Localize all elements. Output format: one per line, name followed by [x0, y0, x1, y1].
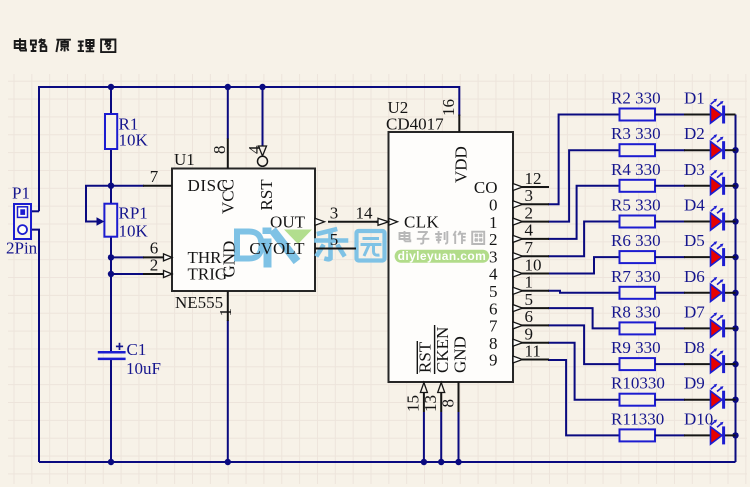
svg-text:15: 15: [404, 395, 423, 412]
resistor R1 10K: [105, 114, 149, 150]
watermark diyleyuan.com pill: [395, 249, 490, 263]
wire OUT to CLK net: [328, 221, 378, 223]
svg-text:10K: 10K: [119, 131, 149, 150]
U2 output 5 pin 1: [489, 273, 549, 301]
svg-text:5: 5: [525, 290, 534, 309]
junction cathode rail D9: [732, 397, 738, 403]
wire Q9 to R11: [548, 360, 620, 435]
junction cathode rail D8: [732, 361, 738, 367]
svg-text:R9 330: R9 330: [611, 338, 661, 357]
resistor R11 330: [611, 409, 664, 441]
U2 pin 15 RST input: [404, 383, 428, 413]
U1 pin 7 DISC: [143, 167, 172, 186]
svg-text:9: 9: [489, 351, 498, 370]
svg-text:R6 330: R6 330: [611, 231, 661, 250]
svg-text:7: 7: [525, 238, 534, 257]
resistor R3 330: [611, 124, 661, 156]
wire R2 to D1: [655, 114, 685, 116]
U2 pin 14 CLK input: [356, 203, 398, 225]
svg-text:CVOLT: CVOLT: [249, 239, 305, 258]
svg-text:diyleyuan.com: diyleyuan.com: [398, 249, 487, 263]
svg-text:D5: D5: [684, 231, 705, 250]
U1 pin 5 CVOLT: [315, 230, 338, 249]
wire top rail to R1: [110, 87, 112, 114]
LED D9: [684, 374, 736, 409]
wire Q3 to R5: [548, 222, 620, 257]
svg-text:6: 6: [489, 299, 498, 318]
LED D2: [684, 124, 736, 159]
wire R5 to D4: [655, 221, 685, 223]
U1 pin name labels: [174, 150, 306, 312]
wire RP1 wiper loop: [86, 186, 111, 222]
LED D4: [684, 196, 736, 231]
watermark 电子制作网 (hand-drawn gray glyphs): [400, 231, 485, 244]
U2 output CO pin 12: [474, 169, 549, 197]
svg-text:R7 330: R7 330: [611, 267, 661, 286]
svg-text:D7: D7: [684, 302, 705, 321]
wire Q4 to R6: [548, 257, 620, 273]
svg-text:D4: D4: [684, 196, 705, 215]
resistor R9 330: [611, 338, 661, 370]
svg-text:R5 330: R5 330: [611, 196, 661, 215]
svg-text:11: 11: [525, 341, 541, 360]
U2 pin 16 VDD: [439, 99, 460, 132]
wire R7 to D6: [655, 292, 685, 294]
svg-text:D8: D8: [684, 338, 705, 357]
U1 pin 4 RST active-low: [245, 145, 268, 166]
capacitor C1 10uF: [98, 340, 161, 378]
junction cathode rail D6: [732, 290, 738, 296]
junction cathode rail D5: [732, 254, 738, 260]
U2 output 1 pin 2: [489, 203, 549, 231]
svg-text:8: 8: [210, 146, 229, 155]
svg-text:10: 10: [525, 255, 542, 274]
svg-text:D3: D3: [684, 160, 705, 179]
junction cathode rail D7: [732, 325, 738, 331]
U1 pin 3 OUT: [315, 203, 338, 225]
junction cathode rail D4: [732, 218, 738, 224]
svg-text:R11330: R11330: [611, 409, 664, 428]
svg-text:D9: D9: [684, 374, 705, 393]
svg-text:CKEN: CKEN: [433, 327, 452, 373]
svg-text:2: 2: [150, 256, 159, 275]
U2 output 6 pin 5: [489, 290, 549, 318]
wire R10 to D9: [655, 399, 685, 401]
wire P1 pin2 down to ground rail: [31, 230, 39, 462]
junction ground rail / U2 pin13: [438, 459, 444, 465]
svg-text:D10: D10: [684, 409, 713, 428]
U1 pin 6 THR: [143, 239, 172, 261]
junction top rail / pin8: [225, 84, 231, 90]
op-amp/timer U1 NE555 body: [172, 169, 315, 292]
wire Q7 to R9: [548, 325, 620, 364]
junction node TRIG: [108, 271, 114, 277]
wire node THR/TRIG down to C1: [110, 237, 112, 352]
wire U2 RST pin15 to rail: [423, 412, 425, 462]
U2 output 3 pin 7: [489, 238, 549, 266]
svg-text:1: 1: [489, 213, 498, 232]
junction cathode rail D2: [732, 147, 738, 153]
svg-text:8: 8: [438, 399, 457, 408]
junction ground rail / C1: [108, 459, 114, 465]
svg-text:16: 16: [439, 99, 458, 116]
wire Q2 to R4: [548, 186, 620, 239]
wire pin7 DISC: [111, 185, 144, 187]
watermark 园 glyph: [357, 231, 385, 261]
wire R6 to D5: [655, 256, 685, 258]
svg-text:1: 1: [525, 273, 534, 292]
counter U2 CD4017 body: [389, 132, 514, 382]
resistor R6 330: [611, 231, 661, 263]
wire Q1 to R3: [548, 150, 620, 221]
LED D3: [684, 160, 736, 195]
svg-text:10K: 10K: [119, 222, 149, 241]
wire R8 to D7: [655, 327, 685, 329]
svg-text:3: 3: [330, 203, 339, 222]
U1 pin 8 VCC: [210, 139, 229, 169]
junction ground rail / U2 pin15: [421, 459, 427, 465]
svg-text:3: 3: [525, 186, 534, 205]
svg-text:RST: RST: [416, 341, 435, 373]
wire pin2 TRIG: [111, 273, 144, 275]
U2 output 0 pin 3: [489, 186, 549, 214]
svg-text:5: 5: [489, 282, 498, 301]
svg-text:R2 330: R2 330: [611, 89, 661, 108]
wire Q0 to R2: [548, 115, 620, 205]
svg-text:GND: GND: [451, 336, 470, 373]
svg-text:4: 4: [489, 265, 498, 284]
resistor R10 330: [611, 374, 665, 406]
svg-text:10uF: 10uF: [126, 359, 161, 378]
wire VCC top rail from P1 pin1 riser to U2 pin16: [39, 87, 459, 211]
watermark DIY logo: [237, 228, 312, 268]
junction cathode rail D3: [732, 183, 738, 189]
wire Q6 to R8: [548, 308, 620, 328]
svg-text:R8 330: R8 330: [611, 302, 661, 321]
wire P1 pin1 to riser: [31, 210, 39, 212]
svg-text:0: 0: [489, 196, 498, 215]
svg-text:7: 7: [150, 167, 159, 186]
junction top rail / pin4: [259, 84, 265, 90]
connector P1 2Pin: [6, 183, 38, 257]
junction node THR: [108, 254, 114, 260]
U1 pin 1 GND: [216, 291, 235, 321]
U2 output 9 pin 11: [489, 341, 549, 369]
svg-text:2: 2: [489, 230, 498, 249]
svg-text:VDD: VDD: [452, 146, 471, 183]
svg-text:12: 12: [525, 169, 542, 188]
svg-text:CLK: CLK: [404, 212, 440, 231]
wire pin8 VCC: [227, 87, 229, 139]
svg-text:R10330: R10330: [611, 374, 665, 393]
svg-text:5: 5: [330, 230, 339, 249]
LED D6: [684, 267, 736, 302]
U2 output 8 pin 9: [489, 325, 549, 353]
U2 output 7 pin 6: [489, 307, 549, 335]
svg-text:OUT: OUT: [270, 212, 306, 231]
svg-text:C1: C1: [127, 340, 147, 359]
LED D10: [684, 409, 736, 444]
svg-text:D2: D2: [684, 124, 705, 143]
wire C1 to ground rail: [110, 359, 112, 462]
wire U2 GND pin8 to rail: [458, 412, 460, 462]
LED D7: [684, 302, 736, 337]
svg-text:4: 4: [525, 221, 534, 240]
svg-text:CO: CO: [474, 178, 498, 197]
svg-text:U1: U1: [174, 150, 195, 169]
wire Q8 to R10: [548, 343, 620, 400]
U2 output 4 pin 10: [489, 255, 549, 283]
svg-text:7: 7: [489, 317, 498, 336]
wire R9 to D8: [655, 363, 685, 365]
U2 pin 13 CKEN input: [421, 383, 445, 413]
svg-text:P1: P1: [12, 183, 30, 202]
watermark 乐 glyph: [317, 230, 347, 260]
potentiometer RP1 10K: [97, 204, 149, 241]
wire R4 to D3: [655, 185, 685, 187]
wire R11 to D10: [655, 434, 685, 436]
resistor R7 330: [611, 267, 661, 299]
wire ground rail: [39, 461, 736, 463]
svg-text:14: 14: [356, 203, 374, 222]
U1 pin 2 TRIG: [143, 256, 172, 278]
svg-text:RP1: RP1: [119, 204, 148, 223]
svg-text:GND: GND: [219, 241, 238, 278]
U2 pin name labels: [386, 98, 471, 374]
svg-text:13: 13: [421, 395, 440, 412]
resistor R8 330: [611, 302, 661, 334]
wire U2 CKEN pin13 to rail: [440, 412, 442, 462]
resistor R5 330: [611, 196, 661, 228]
wire pin4 RST: [262, 87, 264, 146]
svg-text:R3 330: R3 330: [611, 124, 661, 143]
wire pin5 CVOLT stub: [328, 248, 356, 250]
title 电路原理图 (hand-drawn glyphs): [15, 38, 116, 52]
svg-text:R4 330: R4 330: [611, 160, 661, 179]
junction top rail / R1: [108, 84, 114, 90]
junction ground rail / U2 pin8: [455, 459, 461, 465]
U2 pin 8 GND: [438, 382, 458, 412]
LED D5: [684, 231, 736, 266]
wire Q5 to R7: [548, 291, 620, 293]
resistor R4 330: [611, 160, 661, 192]
svg-text:CD4017: CD4017: [386, 115, 444, 134]
svg-text:3: 3: [489, 247, 498, 266]
svg-text:VCC: VCC: [219, 179, 238, 214]
wire LED cathode rail: [735, 115, 737, 463]
LED D8: [684, 338, 736, 373]
svg-text:1: 1: [216, 308, 235, 317]
svg-text:6: 6: [525, 307, 534, 326]
U2 output 2 pin 4: [489, 221, 549, 249]
svg-text:4: 4: [245, 145, 264, 154]
wire R3 to D2: [655, 149, 685, 151]
resistor R2 330: [611, 89, 661, 121]
svg-text:RST: RST: [257, 179, 276, 211]
wire pin1 GND to rail: [227, 320, 229, 462]
svg-text:2: 2: [525, 203, 534, 222]
svg-text:D6: D6: [684, 267, 705, 286]
junction node DISC / RP1: [108, 183, 114, 189]
junction cathode rail D10: [732, 432, 738, 438]
svg-text:2Pin: 2Pin: [6, 239, 38, 258]
wire R1 to RP1: [110, 149, 112, 204]
wire pin6 THR: [111, 256, 144, 258]
svg-text:D1: D1: [684, 89, 705, 108]
junction ground rail / pin1: [225, 459, 231, 465]
LED D1: [684, 89, 736, 124]
